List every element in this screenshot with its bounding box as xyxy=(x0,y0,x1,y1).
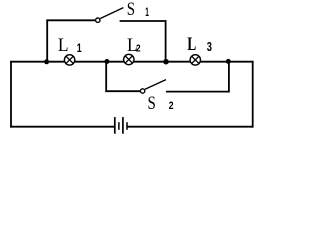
wire S1 branch top right xyxy=(120,20,167,22)
svg-text:L: L xyxy=(187,35,196,55)
node junction dot B xyxy=(104,59,109,64)
wire right rail xyxy=(252,61,254,128)
wire S1 branch top left xyxy=(46,19,95,21)
lamp L2 xyxy=(124,54,134,64)
svg-text:L: L xyxy=(58,36,69,56)
wire bottom return xyxy=(10,126,253,128)
svg-text:S: S xyxy=(127,0,135,20)
wire left rail xyxy=(10,61,12,128)
svg-text:2: 2 xyxy=(136,44,141,55)
node junction dot C xyxy=(163,59,169,65)
lamp L3 xyxy=(190,55,200,65)
wire S2 branch lower right xyxy=(166,91,230,93)
switch S1 xyxy=(96,8,124,23)
svg-text:S: S xyxy=(148,94,156,114)
svg-text:3: 3 xyxy=(207,40,212,54)
wire S2 branch left vertical xyxy=(105,61,107,92)
node junction dot A xyxy=(44,59,49,64)
svg-text:2: 2 xyxy=(169,100,174,112)
node junction dot D xyxy=(226,59,231,64)
wire S2 branch lower left xyxy=(105,90,140,92)
lamp L1 xyxy=(64,55,74,65)
switch S2 xyxy=(140,80,166,94)
wire S1 branch right vertical xyxy=(165,20,167,62)
svg-text:1: 1 xyxy=(145,7,149,19)
svg-text:1: 1 xyxy=(77,43,82,55)
wire main horizontal bus xyxy=(10,61,253,63)
wire S1 branch left vertical xyxy=(46,20,48,63)
battery B1 xyxy=(115,117,127,134)
wire S2 branch right vertical xyxy=(228,61,230,92)
